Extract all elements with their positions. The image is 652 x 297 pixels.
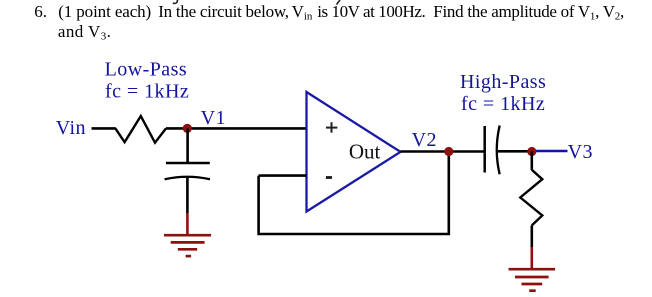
wire V3 node to R2 <box>530 152 533 171</box>
svg-text:and V3.: and V3. <box>58 22 111 43</box>
feedback wire <box>259 152 449 235</box>
wire inverting input <box>259 174 307 177</box>
svg-text:Find the amplitude of V1, V2,: Find the amplitude of V1, V2, <box>433 2 624 23</box>
svg-text:Out: Out <box>349 140 381 164</box>
junction node V2 <box>444 147 453 156</box>
svg-text:V1: V1 <box>201 107 226 129</box>
wire R1 to op-amp noninverting input <box>166 127 307 130</box>
cropped text fragment 2 <box>337 0 341 5</box>
svg-text:is 10V at 100Hz.: is 10V at 100Hz. <box>317 2 426 21</box>
ground high-pass <box>509 269 556 291</box>
wire to V3 label <box>536 150 568 153</box>
junction node V3 <box>527 147 536 156</box>
svg-text:Low-Pass: Low-Pass <box>105 59 188 81</box>
svg-text:High-Pass: High-Pass <box>460 71 546 93</box>
svg-text:Vin: Vin <box>56 117 86 139</box>
op-amp minus input symbol <box>326 176 332 179</box>
svg-text:fc = 1kHz: fc = 1kHz <box>461 93 545 115</box>
ground low-pass <box>164 235 211 256</box>
svg-text:V3: V3 <box>568 141 593 163</box>
resistor R1 <box>115 116 166 143</box>
op-amp U1 <box>307 92 401 212</box>
wire op-amp output to C2 <box>401 150 485 153</box>
svg-text:In the circuit below,: In the circuit below, <box>158 2 289 21</box>
wire Vin to R1 <box>92 127 116 130</box>
svg-text:(1 point each): (1 point each) <box>58 2 151 21</box>
wire R2 to ground <box>530 225 533 269</box>
problem text line 1 <box>34 2 624 23</box>
op-amp plus input symbol <box>326 122 337 133</box>
svg-text:Vin: Vin <box>292 2 313 23</box>
svg-text:fc = 1kHz: fc = 1kHz <box>105 81 189 103</box>
wire C2 to V3 node <box>498 150 532 153</box>
capacitor C1 <box>165 163 210 179</box>
junction node V1 <box>183 124 192 133</box>
svg-text:6.: 6. <box>34 2 47 21</box>
cropped text fragment 1 <box>173 0 178 3</box>
wire C1 to ground <box>186 178 189 235</box>
wire V1 to C1 <box>186 128 189 163</box>
svg-text:V2: V2 <box>412 129 437 151</box>
capacitor C2 <box>485 126 500 175</box>
resistor R2 <box>520 170 542 226</box>
